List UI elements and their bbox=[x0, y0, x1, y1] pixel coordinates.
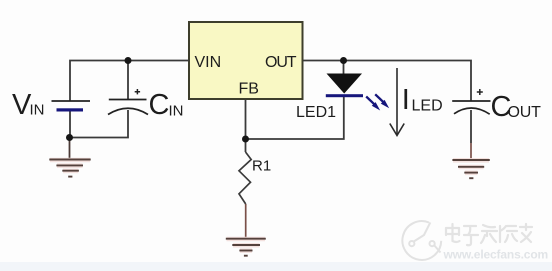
svg-text:I: I bbox=[402, 84, 410, 116]
svg-text:C: C bbox=[149, 89, 170, 121]
ground: under battery halo bbox=[50, 160, 90, 171]
wire: battery negative to bottom rail bbox=[69, 110, 71, 138]
wire: input top rail bbox=[70, 61, 189, 102]
LED LED1 cathode bar (navy) bbox=[326, 94, 363, 97]
node: junction dot FB / R1 bbox=[242, 136, 249, 143]
wire: FB node to R1 bbox=[245, 139, 247, 152]
wire: LED anode branch bbox=[343, 61, 345, 75]
svg-text:www.elecfans.com: www.elecfans.com bbox=[443, 248, 549, 262]
wire: COUT bottom stem bbox=[470, 110, 472, 143]
capacitor COUT top plate bbox=[452, 100, 490, 102]
resistor R1 zigzag bbox=[239, 152, 251, 204]
watermark chinese text bbox=[446, 224, 532, 245]
capacitor COUT plus sign bbox=[477, 89, 483, 95]
regulator IC U1 box bbox=[189, 22, 303, 99]
svg-text:OUT: OUT bbox=[508, 104, 542, 121]
wire: R1 bottom to ground bbox=[245, 204, 247, 239]
wire: LED cathode to FB node bbox=[246, 97, 344, 140]
node: junction dot output rail / LED bbox=[340, 57, 347, 64]
LED light arrow 1 bbox=[366, 97, 380, 111]
current arrow ILED bbox=[390, 68, 404, 136]
wire: bottom rail to CIN bottom bbox=[70, 110, 129, 138]
svg-text:IN: IN bbox=[30, 102, 45, 119]
svg-text:IN: IN bbox=[169, 103, 184, 120]
LED light arrow 2 bbox=[375, 94, 389, 108]
svg-text:R1: R1 bbox=[252, 158, 271, 175]
LED LED1 triangle bbox=[327, 74, 363, 94]
svg-text:FB: FB bbox=[239, 81, 259, 98]
node: junction dot input rail / CIN bbox=[125, 57, 132, 64]
watermark logo circle bbox=[402, 221, 441, 260]
wire: output rail OUT to COUT bbox=[303, 61, 471, 102]
ground: under battery bbox=[49, 160, 90, 177]
node: junction dot bottom rail / ground bbox=[66, 134, 73, 141]
svg-text:VIN: VIN bbox=[195, 54, 222, 71]
battery V1 positive plate bbox=[52, 100, 91, 102]
ground: under COUT halo bbox=[453, 160, 489, 173]
wire: COUT stem to ground bbox=[470, 143, 472, 160]
capacitor CIN plus sign bbox=[135, 89, 140, 94]
wire: ground stem left bbox=[69, 138, 71, 160]
ground: under COUT bbox=[452, 160, 489, 178]
capacitor CIN curved plate bbox=[108, 108, 148, 114]
wire: CIN top branch bbox=[127, 61, 129, 100]
capacitor CIN top plate bbox=[109, 99, 147, 101]
bottom light-blue band bbox=[0, 262, 552, 271]
svg-text:LED1: LED1 bbox=[296, 104, 336, 121]
svg-text:OUT: OUT bbox=[265, 54, 297, 71]
wire: FB pin down bbox=[245, 100, 247, 140]
ground: under R1 halo bbox=[227, 239, 266, 251]
battery V1 negative plate (navy) bbox=[57, 108, 84, 111]
capacitor COUT curved plate bbox=[454, 108, 490, 114]
svg-text:LED: LED bbox=[412, 98, 443, 115]
ground: under R1 bbox=[226, 239, 266, 256]
